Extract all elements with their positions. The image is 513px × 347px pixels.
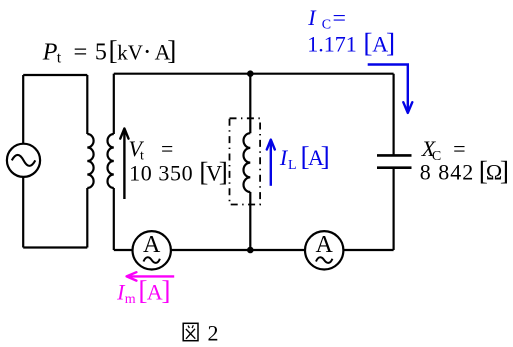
inductor L coil <box>244 133 251 192</box>
ac source V1 <box>7 144 40 177</box>
svg-text:A: A <box>316 232 334 258</box>
wire bottom bus <box>114 249 394 251</box>
wire primary loop top <box>23 74 87 76</box>
transformer secondary coil <box>108 134 114 188</box>
wire primary loop right lower <box>86 188 88 248</box>
wire primary loop bottom <box>23 246 87 248</box>
dash-dot box around L <box>230 118 261 204</box>
wire right upper <box>393 74 395 156</box>
wire secondary left upper <box>113 74 115 134</box>
node bottom junction <box>247 247 254 254</box>
svg-text:Vt=: Vt= <box>129 136 174 164</box>
ammeter A1 <box>133 231 171 269</box>
svg-text:Pt=5[kV·A]: Pt=5[kV·A] <box>42 35 177 67</box>
wire middle branch lower <box>249 192 251 250</box>
svg-text:IC=: IC= <box>307 5 346 33</box>
wire middle branch upper <box>249 74 251 134</box>
svg-text:10 350[V]: 10 350[V] <box>129 156 228 187</box>
IL arrow (blue) <box>267 140 275 186</box>
wire right lower <box>393 168 395 250</box>
node top junction <box>247 70 254 77</box>
caption zu 2 glyph <box>183 323 198 340</box>
svg-text:Im[A]: Im[A] <box>116 275 170 308</box>
capacitor XC top plate <box>377 154 412 157</box>
IC bent arrow (blue) <box>368 65 413 113</box>
svg-text:2: 2 <box>208 320 219 345</box>
wire primary loop right upper <box>86 75 88 134</box>
Vt arrow <box>120 129 128 200</box>
wire secondary left lower <box>113 188 115 250</box>
wire primary loop left <box>22 75 24 248</box>
svg-text:IL[A]: IL[A] <box>279 140 330 173</box>
ammeter A2 <box>305 231 343 269</box>
svg-text:8 842[Ω]: 8 842[Ω] <box>420 155 509 186</box>
svg-text:1.171[A]: 1.171[A] <box>307 27 395 58</box>
capacitor XC bottom plate <box>377 166 412 169</box>
Im arrow (magenta) <box>127 272 175 280</box>
wire top bus <box>114 73 394 75</box>
transformer primary coil <box>87 134 93 188</box>
svg-text:A: A <box>143 232 161 258</box>
